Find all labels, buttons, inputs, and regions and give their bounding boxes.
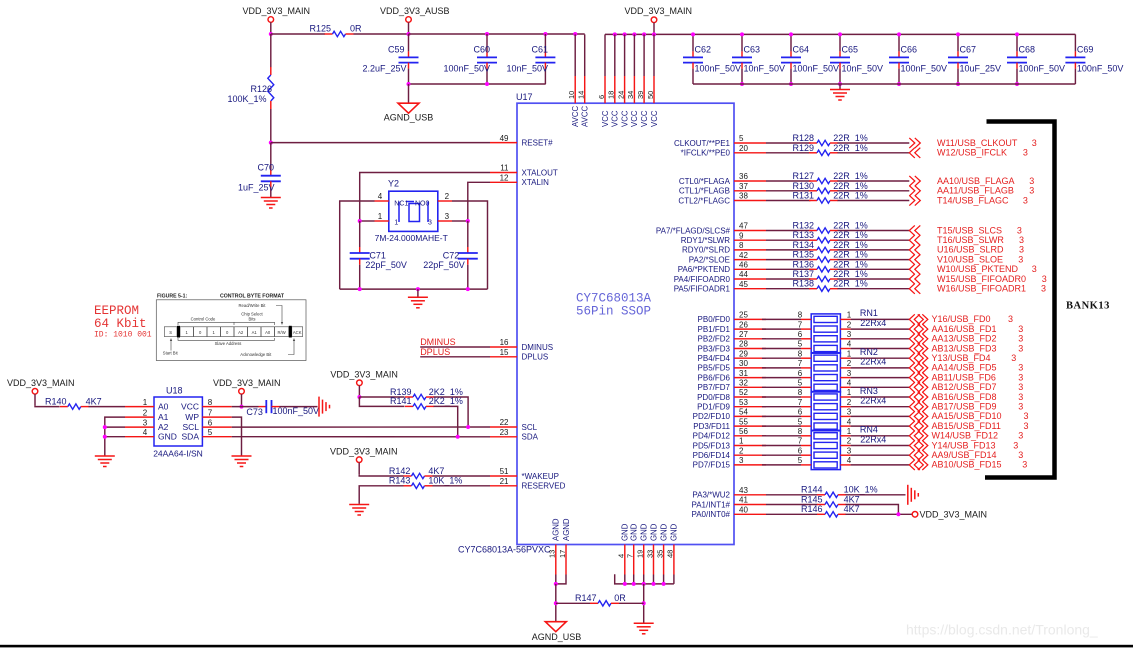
svg-text:T15/USB_SLCS: T15/USB_SLCS: [937, 225, 1002, 235]
svg-text:3: 3: [1041, 284, 1046, 294]
svg-text:3: 3: [1018, 324, 1023, 334]
svg-text:10K_1%: 10K_1%: [428, 476, 462, 486]
svg-text:RN2: RN2: [860, 347, 878, 357]
svg-text:VCC: VCC: [601, 110, 610, 127]
off-page connector AB13/USB_FD3: [909, 343, 915, 353]
RN1 element 4 row wire: [762, 348, 801, 350]
pin 23 SDA left: [490, 436, 517, 438]
svg-text:C73: C73: [246, 407, 263, 417]
svg-text:22R_1%: 22R_1%: [833, 279, 868, 289]
svg-text:RN1: RN1: [860, 308, 878, 318]
svg-text:100nF_50V: 100nF_50V: [695, 64, 742, 74]
resistor R127 22R_1%: [809, 180, 817, 182]
crystal Y2 body: [389, 191, 438, 231]
resistor network RN4 22Rx4 body: [811, 430, 840, 469]
svg-text:9: 9: [739, 231, 744, 240]
svg-text:1: 1: [847, 349, 852, 358]
svg-text:Slave Address: Slave Address: [215, 341, 242, 346]
junction C60 top: [485, 32, 489, 36]
svg-text:XTALOUT: XTALOUT: [522, 168, 558, 177]
svg-text:3: 3: [1013, 440, 1018, 450]
svg-text:U18: U18: [166, 386, 183, 396]
svg-text:25: 25: [739, 311, 748, 320]
svg-text:5: 5: [798, 456, 803, 465]
wire R136 to off-page: [838, 268, 910, 270]
svg-text:CY7C68013A: CY7C68013A: [576, 292, 652, 306]
svg-text:DPLUS: DPLUS: [522, 353, 549, 362]
pin 4 GND bottom: [624, 545, 626, 575]
svg-text:AB15/USB_FD11: AB15/USB_FD11: [932, 421, 1001, 431]
wire pin to R129: [766, 152, 811, 154]
wire R138 to off-page: [838, 288, 910, 290]
svg-text:1: 1: [847, 388, 852, 397]
RN3 element 4 row wire: [762, 425, 801, 427]
svg-text:47: 47: [739, 222, 748, 231]
svg-text:PD7/FD15: PD7/FD15: [693, 461, 731, 470]
resistor R147 0R: [556, 602, 590, 604]
power symbol VDD_3V3_MAIN top-right: [651, 17, 657, 23]
svg-text:Y2: Y2: [388, 179, 399, 189]
RN4 element 3 row wire: [762, 454, 801, 456]
junction gnd stem crystal: [416, 287, 420, 291]
wire AGND pins join: [555, 575, 557, 584]
U18 pin 5 SDA: [202, 436, 231, 438]
svg-text:Y14/USB_FD13: Y14/USB_FD13: [932, 440, 996, 450]
off-page connector AB12/USB_FD7: [909, 382, 915, 392]
svg-text:T14/USB_FLAGC: T14/USB_FLAGC: [937, 195, 1009, 205]
svg-text:31: 31: [739, 369, 748, 378]
svg-text:22R_1%: 22R_1%: [833, 230, 868, 240]
resistor R144 10K_1%: [817, 494, 825, 496]
svg-text:C67: C67: [960, 45, 977, 55]
svg-text:EEPROM: EEPROM: [94, 304, 139, 318]
svg-text:R137: R137: [793, 269, 815, 279]
svg-text:C72: C72: [443, 251, 460, 261]
svg-text:43: 43: [739, 486, 748, 495]
wire Y2 pin1 junction: [360, 220, 375, 222]
pin 38 CTL2/*FLAGC right: [734, 200, 766, 202]
wire R144 to ground: [846, 494, 906, 496]
svg-text:W15/USB_FIFOADR0: W15/USB_FIFOADR0: [937, 274, 1026, 284]
svg-text:1: 1: [847, 427, 852, 436]
svg-text:PD0/FD8: PD0/FD8: [697, 393, 730, 402]
svg-text:T16/USB_SLWR: T16/USB_SLWR: [937, 235, 1004, 245]
svg-text:30: 30: [739, 359, 748, 368]
wire AGND node down: [555, 584, 557, 622]
svg-text:3: 3: [1018, 363, 1023, 373]
svg-text:5: 5: [739, 134, 744, 143]
svg-text:GND: GND: [630, 523, 639, 541]
svg-text:3: 3: [1018, 392, 1023, 402]
pin 39 VCC top: [643, 34, 645, 76]
svg-text:8: 8: [739, 241, 744, 250]
svg-text:Y13/USB_FD4: Y13/USB_FD4: [932, 353, 991, 363]
svg-text:3: 3: [1018, 334, 1023, 344]
U18 pin 1 A0: [125, 406, 154, 408]
svg-text:100nF_50V: 100nF_50V: [443, 64, 490, 74]
power symbol VDD_3V3_MAIN wakeup: [356, 457, 362, 463]
svg-text:Acknowledge Bit: Acknowledge Bit: [240, 352, 272, 357]
U18 pin 3 A2: [125, 426, 154, 428]
svg-text:28: 28: [739, 340, 748, 349]
capacitor C72 22pF_50V: [467, 221, 469, 247]
junction R139 SCL: [466, 425, 470, 429]
svg-text:CTL2/*FLAGC: CTL2/*FLAGC: [678, 196, 730, 205]
svg-text:SDA: SDA: [522, 433, 539, 442]
junction GND ground: [103, 435, 107, 439]
pin 26 PB1/FD1 right: [734, 328, 766, 330]
off-page connector AA9/USB_FD14: [909, 450, 915, 460]
svg-text:RESERVED: RESERVED: [522, 482, 566, 491]
svg-text:2: 2: [847, 398, 852, 407]
pin 34 VCC top: [633, 34, 635, 76]
svg-text:21: 21: [500, 477, 509, 486]
svg-text:S: S: [169, 330, 172, 335]
svg-text:Start Bit: Start Bit: [163, 351, 179, 356]
wire DMINUS to pin16: [420, 346, 490, 348]
svg-text:7: 7: [208, 408, 213, 417]
wire R133 to off-page: [838, 239, 910, 241]
capacitor C70 1uF_25V: [270, 143, 272, 170]
svg-text:35: 35: [655, 550, 664, 558]
svg-text:R129: R129: [793, 143, 815, 153]
pin 8 RDY0/*SLRD right: [734, 249, 766, 251]
pin 41 PA1/INT1# right: [734, 504, 766, 506]
svg-text:AA10/USB_FLAGA: AA10/USB_FLAGA: [937, 176, 1015, 186]
svg-text:1: 1: [143, 398, 148, 407]
svg-text:64 Kbit: 64 Kbit: [94, 317, 147, 331]
svg-text:AB11/USB_FD6: AB11/USB_FD6: [932, 372, 996, 382]
svg-text:19: 19: [636, 550, 645, 558]
U18 pin 4 GND: [125, 436, 154, 438]
svg-text:3: 3: [1018, 431, 1023, 441]
junction VCC pin 24: [623, 32, 627, 36]
wire pin to R137: [766, 278, 811, 280]
svg-text:PD5/FD13: PD5/FD13: [693, 441, 731, 450]
svg-text:*IFCLK/**PE0: *IFCLK/**PE0: [681, 149, 731, 158]
resistor R134 22R_1%: [809, 249, 817, 251]
RN4 element 1 row wire: [762, 435, 801, 437]
svg-text:3: 3: [1029, 176, 1034, 186]
svg-text:44: 44: [739, 270, 748, 279]
svg-text:48: 48: [666, 550, 675, 558]
svg-text:3: 3: [1032, 264, 1037, 274]
svg-text:4K7: 4K7: [86, 396, 102, 406]
svg-text:AB12/USB_FD7: AB12/USB_FD7: [932, 382, 997, 392]
junction AGND pins: [554, 582, 558, 586]
svg-text:A2: A2: [238, 330, 244, 335]
svg-text:PD6/FD14: PD6/FD14: [693, 451, 731, 460]
svg-text:C61: C61: [531, 45, 548, 55]
svg-text:GND: GND: [158, 432, 177, 442]
svg-text:AA13/USB_FD2: AA13/USB_FD2: [932, 334, 997, 344]
svg-text:23: 23: [500, 428, 509, 437]
svg-text:R128: R128: [793, 133, 815, 143]
wire VDD_3V3_MAIN to R125: [271, 33, 325, 35]
svg-text:3: 3: [1011, 353, 1016, 363]
svg-text:W11/USB_CLKOUT: W11/USB_CLKOUT: [937, 138, 1018, 148]
wire R131 to off-page: [838, 200, 910, 202]
junction C72 bottom: [466, 287, 470, 291]
svg-text:2: 2: [847, 437, 852, 446]
pin 48 GND bottom: [673, 545, 675, 575]
svg-text:5: 5: [798, 379, 803, 388]
svg-text:7: 7: [798, 359, 803, 368]
svg-text:R130: R130: [793, 181, 815, 191]
junction AGND R147: [554, 601, 558, 605]
svg-text:AB16/USB_FD8: AB16/USB_FD8: [932, 392, 997, 402]
pin 51 *WAKEUP left: [490, 475, 517, 477]
svg-text:DMINUS: DMINUS: [420, 337, 456, 347]
svg-text:CY7C68013A-56PVXC: CY7C68013A-56PVXC: [458, 545, 551, 555]
svg-text:3: 3: [739, 456, 744, 465]
svg-text:32: 32: [739, 379, 748, 388]
ground sideways after C73: [318, 397, 320, 417]
svg-text:56Pin SSOP: 56Pin SSOP: [576, 305, 651, 319]
pin 6 VCC top: [604, 34, 606, 76]
off-page connector T15/USB_SLCS: [909, 225, 915, 235]
svg-text:3: 3: [847, 369, 852, 378]
svg-text:SCL: SCL: [522, 423, 538, 432]
off-page connector AB10/USB_FD15: [909, 460, 915, 470]
svg-text:RDY0/*SLRD: RDY0/*SLRD: [682, 246, 730, 255]
svg-text:C59: C59: [388, 45, 405, 55]
capacitor C63 10nF_50V: [741, 34, 743, 51]
wire GND rail bottom: [624, 575, 626, 584]
resistor R128 22R_1%: [809, 142, 817, 144]
wire pin to R130: [766, 190, 811, 192]
svg-text:AGND_USB: AGND_USB: [532, 632, 582, 642]
pin 22 SCL left: [490, 426, 517, 428]
resistor R132 22R_1%: [809, 230, 817, 232]
wire pin 41 to R145: [766, 504, 818, 506]
RN4 element 4 row wire: [762, 464, 801, 466]
svg-text:49: 49: [500, 134, 509, 143]
wire R127 to off-page: [838, 180, 910, 182]
svg-text:PA5/FIFOADR1: PA5/FIFOADR1: [674, 285, 731, 294]
svg-text:R135: R135: [793, 250, 815, 260]
wire SCL U18 to U17: [232, 426, 490, 428]
off-page connector AA13/USB_FD2: [909, 334, 915, 344]
pin 15 DPLUS left: [490, 356, 517, 358]
svg-text:6: 6: [208, 418, 213, 427]
RN3 element 2 row wire: [762, 406, 801, 408]
svg-text:4: 4: [378, 192, 383, 201]
RN3 element 3 row wire: [762, 415, 801, 417]
pin 4 Y2: [375, 200, 389, 202]
svg-text:GND: GND: [621, 523, 630, 541]
svg-text:PA1/INT1#: PA1/INT1#: [691, 500, 730, 509]
svg-text:GND: GND: [659, 523, 668, 541]
wire VDD to R141: [359, 397, 404, 406]
svg-text:1: 1: [847, 311, 852, 320]
ground under VCC cap rail: [839, 84, 841, 90]
junction VCC pin 18: [613, 32, 617, 36]
svg-text:3: 3: [1022, 460, 1027, 470]
svg-text:29: 29: [739, 349, 748, 358]
svg-text:4: 4: [847, 340, 852, 349]
pin 2 PD6/FD14 right: [734, 454, 766, 456]
junction pullup rail: [357, 395, 361, 399]
pin 9 RDY1/*SLWR right: [734, 239, 766, 241]
junction GND rail: [642, 582, 646, 586]
wire pin to R136: [766, 268, 811, 270]
svg-text:20: 20: [739, 144, 748, 153]
svg-text:U16/USB_SLRD: U16/USB_SLRD: [937, 245, 1004, 255]
off-page connector Y14/USB_FD13: [909, 440, 915, 450]
power symbol VDD_3V3_MAIN top-left: [268, 17, 274, 23]
pin 2 Y2: [438, 200, 452, 202]
svg-text:PB1/FD1: PB1/FD1: [698, 325, 731, 334]
junction C71 bottom: [358, 287, 362, 291]
svg-text:34: 34: [626, 91, 635, 99]
svg-text:1: 1: [378, 212, 383, 221]
resistor R138 22R_1%: [809, 288, 817, 290]
junction GND rail: [623, 582, 627, 586]
off-page connector AB16/USB_FD8: [909, 392, 915, 402]
svg-text:33: 33: [645, 550, 654, 558]
svg-text:R134: R134: [793, 240, 815, 250]
off-page connector Y16/USB_FD0: [909, 314, 915, 324]
resistor R140 4K7: [60, 406, 68, 408]
svg-text:R146: R146: [801, 504, 823, 514]
capacitor C59 2.2uF_25V: [408, 34, 410, 51]
RN3 element 1 row wire: [762, 396, 801, 398]
svg-text:3: 3: [1023, 195, 1028, 205]
svg-text:R147: R147: [575, 593, 597, 603]
svg-text:W16/USB_FIFOADR1: W16/USB_FIFOADR1: [937, 284, 1026, 294]
off-page connector W14/USB_FD12: [909, 431, 915, 441]
svg-text:2.2uF_25V: 2.2uF_25V: [362, 64, 406, 74]
pin 19 GND bottom: [643, 545, 645, 575]
junction bottom cap rail: [897, 82, 901, 86]
svg-text:3: 3: [1018, 343, 1023, 353]
junction A2 ground: [103, 425, 107, 429]
pin 11 XTALOUT left: [490, 172, 517, 174]
off-page connector T16/USB_SLWR: [909, 235, 915, 245]
svg-text:4: 4: [617, 554, 626, 558]
svg-text:C65: C65: [842, 45, 859, 55]
svg-text:6: 6: [798, 330, 803, 339]
resistor R135 22R_1%: [809, 259, 817, 261]
svg-text:3: 3: [428, 220, 432, 227]
svg-text:53: 53: [739, 398, 748, 407]
svg-text:C66: C66: [901, 45, 918, 55]
svg-text:3: 3: [1017, 225, 1022, 235]
power symbol VDD_3V3_AUSB: [406, 17, 412, 23]
svg-text:6: 6: [597, 95, 606, 99]
wire VDD to R142: [359, 474, 403, 476]
RN2 element 2 row wire: [762, 367, 801, 369]
svg-text:PA0/INT0#: PA0/INT0#: [691, 510, 730, 519]
wire pin to R127: [766, 180, 811, 182]
pin 5 CLKOUT/**PE1 right: [734, 142, 766, 144]
svg-text:36: 36: [739, 172, 748, 181]
capacitor C68 100nF_50V: [1016, 34, 1018, 51]
resistor R125 0R: [325, 33, 333, 35]
svg-text:4K7: 4K7: [844, 504, 860, 514]
svg-text:10: 10: [567, 91, 576, 99]
junction VDD stem on VCC rail: [652, 32, 656, 36]
svg-text:12: 12: [500, 174, 509, 183]
svg-text:PD4/FD12: PD4/FD12: [693, 432, 731, 441]
svg-text:RDY1/*SLWR: RDY1/*SLWR: [681, 236, 730, 245]
pin 54 PD2/FD10 right: [734, 415, 766, 417]
svg-text:46: 46: [739, 261, 748, 270]
svg-text:PA4/FIFOADR0: PA4/FIFOADR0: [674, 275, 731, 284]
svg-text:3: 3: [1008, 314, 1013, 324]
ground sideways after R144: [907, 485, 909, 505]
svg-text:NC1: NC1: [394, 201, 408, 208]
resistor R137 22R_1%: [809, 278, 817, 280]
svg-text:PB7/FD7: PB7/FD7: [698, 383, 731, 392]
svg-text:4: 4: [847, 379, 852, 388]
resistor network RN1 22Rx4 body: [811, 314, 840, 353]
junction C66 top rail: [897, 32, 901, 36]
wire U18 WP to ground: [232, 417, 242, 455]
power symbol VDD_3V3_MAIN pullups: [357, 380, 363, 386]
svg-text:PD2/FD10: PD2/FD10: [693, 412, 731, 421]
junction bottom cap rail: [740, 82, 744, 86]
svg-text:AA14/USB_FD5: AA14/USB_FD5: [932, 363, 997, 373]
off-page connector W12/USB_IFCLK: [909, 148, 915, 158]
svg-text:22R_1%: 22R_1%: [833, 191, 868, 201]
wire R140 to U18 pin1: [89, 406, 126, 408]
svg-text:AB13/USB_FD3: AB13/USB_FD3: [932, 343, 997, 353]
off-page connector AA11/USB_FLAGB: [909, 186, 915, 196]
U18 pin 2 A1: [125, 416, 154, 418]
off-page connector AA16/USB_FD1: [909, 324, 915, 334]
svg-text:GND: GND: [640, 523, 649, 541]
wire pin to R131: [766, 200, 811, 202]
svg-text:3: 3: [1042, 274, 1047, 284]
svg-text:3: 3: [847, 330, 852, 339]
svg-text:R144: R144: [801, 485, 823, 495]
wire R139 to SCL: [434, 397, 469, 427]
svg-text:PD1/FD9: PD1/FD9: [697, 403, 730, 412]
svg-text:10nF_50V: 10nF_50V: [744, 64, 786, 74]
junction GND rail: [662, 582, 666, 586]
svg-text:ID: 1010 001: ID: 1010 001: [94, 331, 152, 340]
junction C65 top rail: [838, 32, 842, 36]
svg-text:VCC: VCC: [620, 110, 629, 127]
svg-text:4K7: 4K7: [844, 494, 860, 504]
wire R135 to off-page: [838, 259, 910, 261]
off-page connector W15/USB_FIFOADR0: [909, 274, 915, 284]
svg-text:Y16/USB_FD0: Y16/USB_FD0: [932, 314, 991, 324]
off-page connector AA14/USB_FD5: [909, 363, 915, 373]
svg-text:GND: GND: [670, 523, 679, 541]
svg-text:W10/USB_PKTEND: W10/USB_PKTEND: [937, 264, 1019, 274]
pin 21 RESERVED left: [490, 485, 517, 487]
svg-text:VDD_3V3_MAIN: VDD_3V3_MAIN: [625, 6, 693, 16]
svg-text:5: 5: [798, 340, 803, 349]
svg-text:10uF_25V: 10uF_25V: [960, 64, 1002, 74]
svg-text:8: 8: [208, 398, 213, 407]
svg-text:8: 8: [798, 427, 803, 436]
svg-text:13: 13: [548, 550, 557, 558]
svg-text:4K7: 4K7: [428, 466, 444, 476]
svg-text:DMINUS: DMINUS: [522, 343, 554, 352]
svg-text:R125: R125: [310, 24, 332, 34]
wire SDA U18 to U17: [232, 436, 490, 438]
svg-text:27: 27: [739, 330, 748, 339]
svg-text:PB2/FD2: PB2/FD2: [698, 335, 731, 344]
off-page connector AA15/USB_FD10: [909, 411, 915, 421]
svg-text:R132: R132: [793, 221, 815, 231]
capacitor C61 10nF_50V: [544, 34, 546, 51]
RN2 element 1 row wire: [762, 357, 801, 359]
